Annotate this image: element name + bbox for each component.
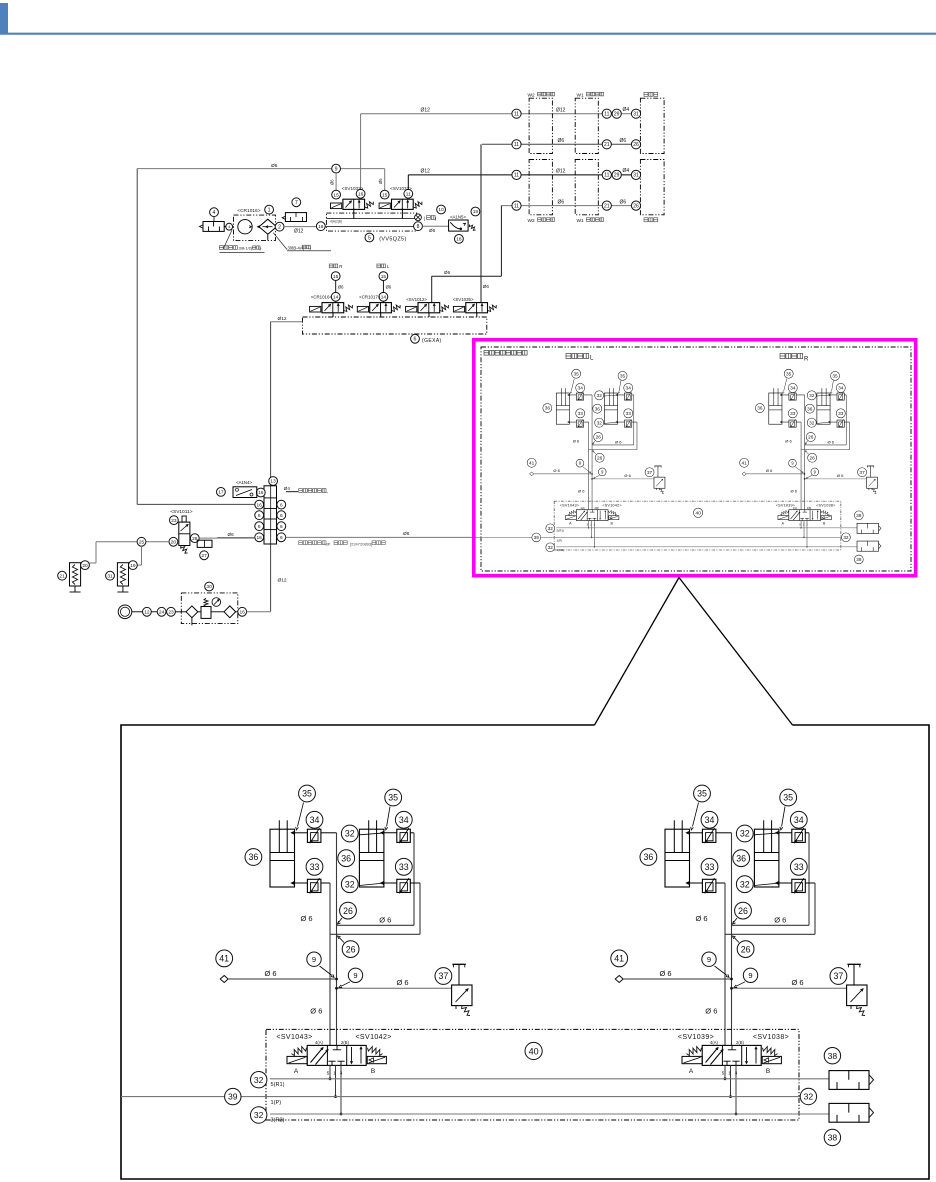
svg-text:6: 6	[414, 337, 417, 343]
svg-text:): )	[435, 216, 437, 221]
svg-text:W1: W1	[577, 218, 585, 224]
svg-text:21: 21	[59, 573, 65, 579]
svg-text:21: 21	[604, 142, 610, 148]
svg-text:Ø6: Ø6	[444, 270, 451, 275]
svg-text:30: 30	[206, 584, 212, 590]
svg-text:W1: W1	[577, 93, 585, 99]
svg-text:Ø4: Ø4	[623, 107, 630, 113]
svg-text:R: R	[339, 264, 342, 269]
svg-text:11: 11	[514, 112, 519, 118]
svg-text:Ø12: Ø12	[556, 108, 566, 114]
svg-text:<SV1011>: <SV1011>	[170, 509, 193, 515]
svg-text:L: L	[590, 356, 594, 362]
svg-text:Ø6: Ø6	[329, 179, 334, 185]
svg-text:Ø6: Ø6	[483, 284, 490, 289]
svg-text:Ø6: Ø6	[620, 138, 627, 144]
svg-text:Ø6: Ø6	[558, 138, 565, 144]
svg-text:<SV1035>: <SV1035>	[453, 297, 474, 302]
svg-text:(: (	[424, 216, 426, 221]
svg-text:15: 15	[382, 192, 388, 198]
svg-text:19: 19	[473, 209, 479, 215]
svg-text:4: 4	[213, 210, 216, 216]
svg-text:1: 1	[268, 207, 271, 213]
svg-text:<SV1012>: <SV1012>	[406, 297, 427, 302]
svg-text:Ø4: Ø4	[284, 486, 291, 491]
svg-text:11: 11	[514, 142, 519, 148]
svg-text:15: 15	[381, 274, 387, 280]
svg-text:15: 15	[333, 274, 339, 280]
svg-text:16: 16	[358, 192, 364, 198]
svg-text:W2: W2	[528, 218, 536, 224]
svg-text:Ø6: Ø6	[403, 531, 410, 537]
svg-text:<SV1032>: <SV1032>	[390, 186, 412, 191]
svg-text:27: 27	[201, 553, 207, 559]
svg-text:<A1N5>: <A1N5>	[450, 214, 467, 219]
svg-text:20: 20	[82, 563, 88, 569]
svg-text:Ø12: Ø12	[421, 168, 431, 174]
svg-text:23: 23	[171, 518, 177, 524]
svg-text:): )	[310, 245, 312, 250]
svg-text:21: 21	[604, 203, 610, 209]
svg-text:3/8-1/2(: 3/8-1/2(	[239, 246, 253, 251]
svg-text:3P: 3P	[326, 541, 331, 546]
svg-text:17: 17	[218, 490, 224, 496]
svg-text:Ø6: Ø6	[378, 178, 383, 184]
svg-text:4(A)2(B): 4(A)2(B)	[330, 219, 342, 223]
svg-text:R: R	[804, 357, 809, 363]
svg-text:29: 29	[614, 173, 620, 179]
svg-text:31: 31	[633, 173, 639, 179]
svg-text:(GEXA): (GEXA)	[422, 338, 442, 344]
svg-text:6: 6	[280, 502, 283, 508]
svg-text:12: 12	[144, 610, 150, 616]
svg-text:26: 26	[633, 203, 639, 209]
svg-text:2: 2	[278, 225, 281, 231]
svg-text:Ø6: Ø6	[228, 532, 235, 537]
svg-text:Ø12: Ø12	[294, 229, 304, 235]
svg-text:8: 8	[417, 224, 420, 230]
svg-text:6: 6	[258, 524, 261, 530]
svg-text:<CR1017>: <CR1017>	[359, 295, 381, 300]
svg-text:16: 16	[318, 224, 324, 230]
svg-text:25: 25	[139, 540, 145, 546]
svg-text:31: 31	[633, 112, 639, 118]
svg-text:Ø6: Ø6	[338, 285, 344, 290]
svg-text:Ø6: Ø6	[558, 199, 565, 205]
svg-text:16: 16	[240, 610, 246, 616]
svg-text:<A1N4>: <A1N4>	[236, 480, 253, 485]
svg-text:11: 11	[604, 173, 609, 179]
svg-text:31: 31	[107, 573, 113, 579]
svg-text:6: 6	[280, 513, 283, 519]
svg-text:L: L	[387, 264, 390, 269]
svg-text:20: 20	[171, 540, 177, 546]
svg-text:16: 16	[257, 535, 263, 541]
svg-text:13: 13	[270, 479, 276, 485]
svg-text:11: 11	[514, 203, 519, 209]
svg-text:7: 7	[295, 200, 298, 206]
svg-text:): )	[260, 246, 262, 251]
svg-text:<SV1033>: <SV1033>	[342, 186, 364, 191]
svg-text:26: 26	[633, 142, 639, 148]
svg-text:6: 6	[280, 524, 283, 530]
svg-text:9: 9	[335, 166, 338, 172]
svg-text:Ø6: Ø6	[620, 199, 627, 205]
svg-text:10: 10	[438, 207, 444, 213]
svg-text:11: 11	[406, 192, 411, 198]
svg-text:24: 24	[159, 610, 165, 616]
svg-text:5: 5	[368, 235, 371, 241]
svg-text:11: 11	[514, 173, 519, 179]
svg-text:14: 14	[333, 295, 339, 301]
svg-text:<CR1016>: <CR1016>	[311, 295, 333, 300]
svg-text:→: →	[325, 490, 329, 494]
svg-text:15: 15	[333, 192, 339, 198]
svg-text:18: 18	[456, 237, 462, 243]
svg-text:Ø6: Ø6	[271, 163, 278, 169]
svg-text:[224720893]: [224720893]	[350, 541, 372, 546]
svg-text:W2: W2	[528, 93, 536, 99]
svg-text:23: 23	[168, 610, 174, 616]
svg-text:Ø6: Ø6	[429, 228, 436, 233]
svg-text:Ø6: Ø6	[386, 285, 392, 290]
svg-text:16: 16	[258, 490, 264, 496]
svg-text:<CR1016>: <CR1016>	[237, 208, 260, 214]
svg-text:14: 14	[381, 295, 387, 301]
svg-text:6: 6	[258, 513, 261, 519]
svg-text:Ø12: Ø12	[421, 107, 431, 113]
svg-text:Ø12: Ø12	[278, 578, 287, 584]
svg-text:16: 16	[257, 502, 263, 508]
svg-text:(VV5QZ5): (VV5QZ5)	[379, 237, 406, 243]
svg-text:Ø12: Ø12	[556, 169, 566, 175]
svg-text:19: 19	[130, 563, 136, 569]
svg-text:11: 11	[604, 112, 609, 118]
svg-text:6: 6	[280, 535, 283, 541]
svg-text:29: 29	[614, 112, 620, 118]
svg-text:Ø4: Ø4	[623, 168, 630, 174]
